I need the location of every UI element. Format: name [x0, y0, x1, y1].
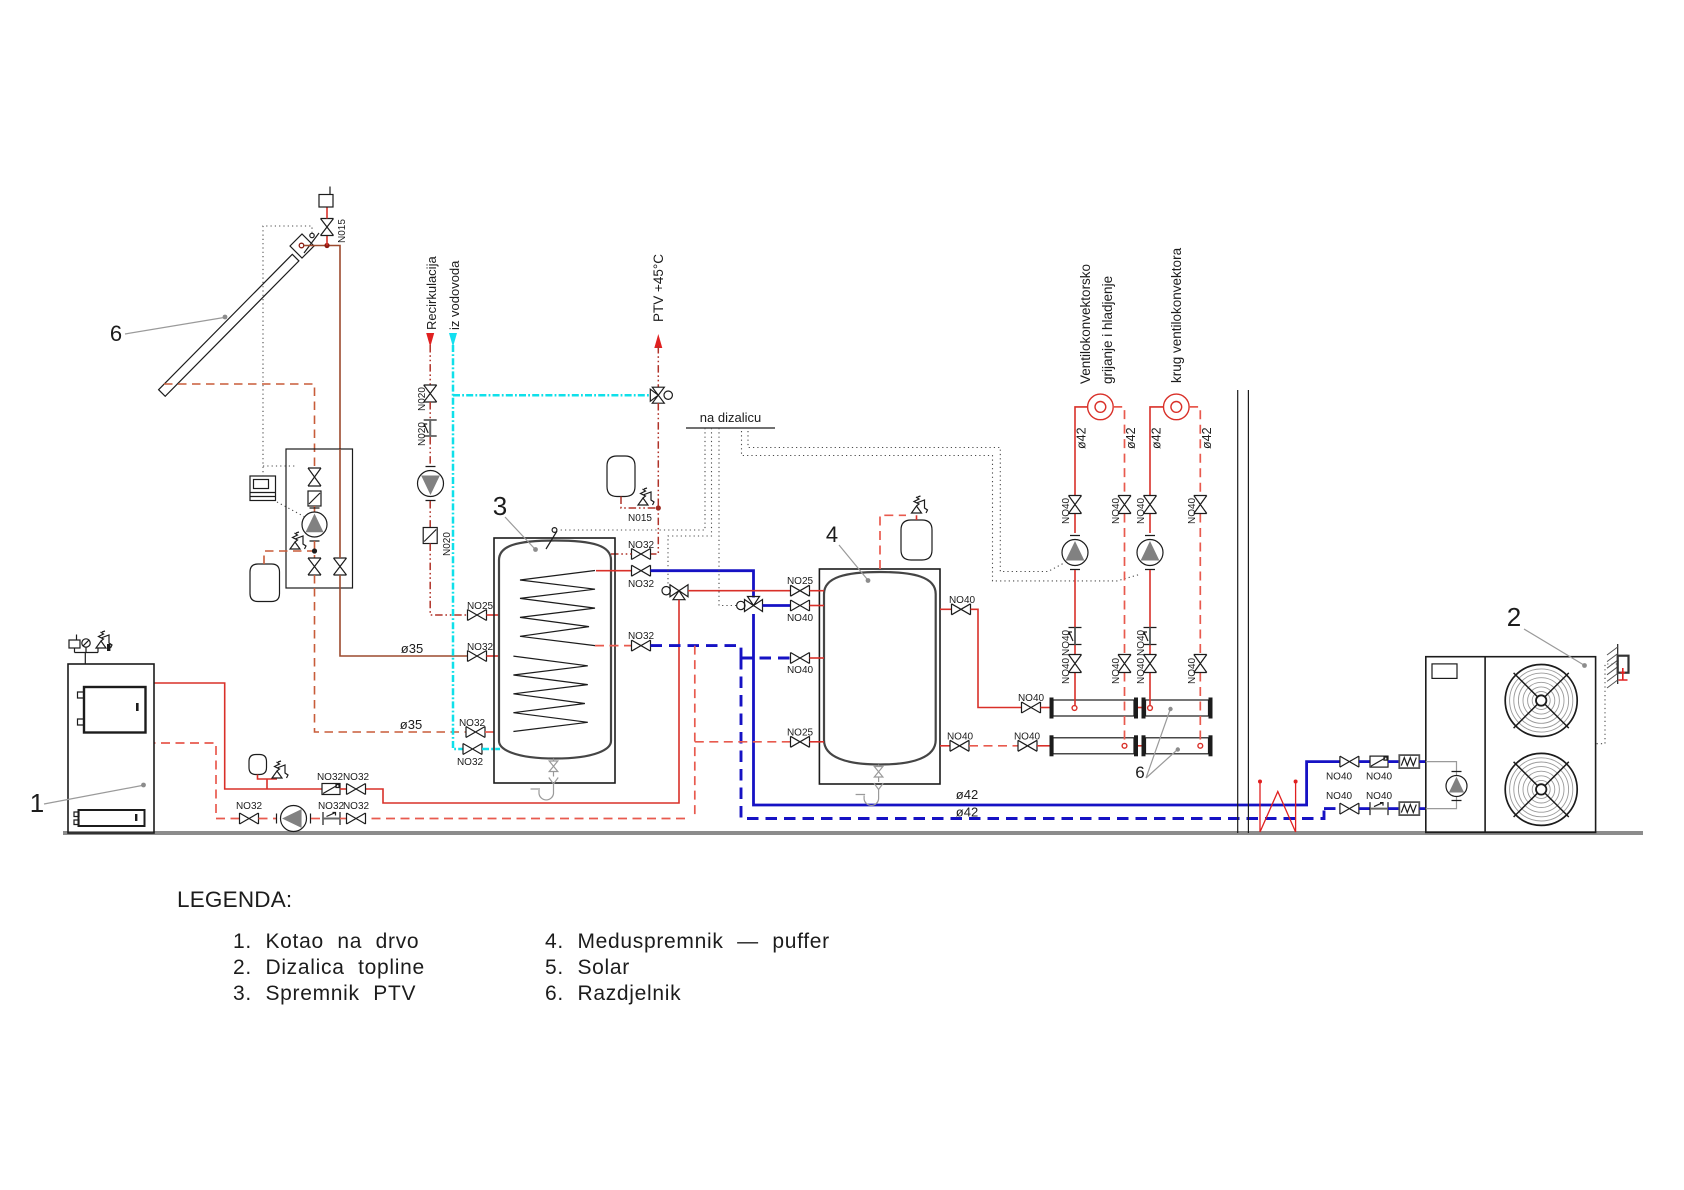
valve NO40 manifold return [1018, 740, 1037, 751]
wire dotted sensor to controller [263, 226, 312, 476]
leader 3 [505, 517, 534, 548]
outdoor sensor red mark [1619, 668, 1628, 680]
wire tank4 return dashed [969, 745, 1018, 747]
valve NO32 boiler return 2 [347, 813, 366, 824]
svg-text:2: 2 [1507, 602, 1521, 632]
wire station return exit [314, 575, 316, 588]
boiler expansion vessel [249, 755, 267, 775]
svg-text:NO25: NO25 [467, 601, 494, 612]
svg-text:NO32: NO32 [318, 801, 345, 812]
wire manifold return link [1138, 745, 1142, 747]
valve solar station top [308, 468, 321, 486]
svg-text:1: 1 [30, 788, 44, 818]
wire solar return dashed from panel [164, 384, 315, 470]
svg-text:NO40: NO40 [1018, 693, 1045, 704]
valve NO40 fancoil return 2 [1194, 496, 1207, 514]
check valve NO40 fancoil 2 [1144, 628, 1157, 645]
svg-text:NO40: NO40 [1326, 772, 1353, 783]
pump fancoil 2 [1137, 540, 1163, 566]
svg-text:6: 6 [1135, 763, 1144, 782]
tank 3 lower coil [513, 656, 587, 731]
wire dotted to fancoil pump 2 [742, 431, 1142, 581]
valve NO25 tank4 port4 [791, 736, 810, 747]
outdoor sensor bracket [1618, 656, 1629, 673]
svg-text:5. Solar: 5. Solar [545, 956, 630, 979]
svg-text:6: 6 [110, 321, 122, 346]
wire station internal 2 [314, 541, 316, 558]
wire dotted to tank3 sensor [560, 428, 705, 530]
svg-text:Ventilokonvektorsko: Ventilokonvektorsko [1078, 264, 1093, 384]
boiler body [68, 664, 154, 833]
valve NO40 fancoil 2 lower [1144, 655, 1157, 673]
svg-text:NO32: NO32 [628, 579, 655, 590]
safety valve boiler line [272, 771, 282, 778]
svg-text:NO32: NO32 [457, 757, 484, 768]
valve NO40 fancoil 1 lower [1069, 655, 1082, 673]
wire boiler supply [154, 683, 322, 789]
valve NO25 tank3 recirculation [468, 610, 487, 621]
svg-text:2. Dizalica topline: 2. Dizalica topline [233, 956, 425, 979]
heat pump divider [1484, 657, 1486, 833]
wire recirculation to tank3 [430, 544, 467, 616]
svg-text:4. Meduspremnik — puffer: 4. Meduspremnik — puffer [545, 930, 830, 953]
fancoil circuit symbol 2 [1164, 394, 1190, 420]
valve NO40 fancoil return 1 [1118, 496, 1131, 514]
valve NO40 tank4 port3 [791, 653, 810, 664]
wire dotted to three-way 2 [719, 428, 736, 606]
svg-text:grijanje i hladjenje: grijanje i hladjenje [1100, 276, 1115, 384]
wire three-way to tank4 port2 [763, 604, 791, 607]
wire tank3 top stub [611, 553, 632, 555]
wall bracket hatched [1617, 644, 1619, 684]
valve NO40 manifold feed [1022, 702, 1041, 713]
wire fancoil return 2 dashed [1189, 407, 1200, 743]
svg-text:N020: N020 [417, 387, 428, 411]
arrow recirculation [426, 333, 434, 347]
buffer expansion vessel [901, 520, 932, 560]
svg-text:NO32: NO32 [343, 801, 370, 812]
valve NO32 tank3 top port [632, 549, 651, 560]
wire dotted hp sensor [1596, 664, 1617, 744]
node manifold port r1 [1122, 743, 1127, 748]
pump fancoil 1 [1062, 540, 1088, 566]
node manifold port r2 [1198, 743, 1203, 748]
filter N020 recirculation [423, 528, 437, 544]
valve NO40 tank4 supply out [940, 608, 952, 610]
safety valve buffer [912, 506, 922, 513]
wire vessel to DHW riser [621, 497, 656, 509]
svg-text:ø35: ø35 [400, 717, 422, 732]
valve NO40 hp return [1340, 803, 1359, 814]
svg-text:NO32: NO32 [459, 718, 486, 729]
valve NO32 tank3 cold inlet [463, 744, 482, 755]
wire tank4 to manifold [971, 609, 1022, 707]
flow meter solar station [308, 491, 321, 506]
svg-text:NO25: NO25 [787, 728, 814, 739]
wire heating return dashed tank3 [651, 646, 791, 658]
svg-text:NO40: NO40 [947, 732, 974, 743]
pump recirculation [418, 471, 444, 497]
wire dotted to fancoil pump 1 [748, 431, 1065, 572]
check valve NO32 boiler return [323, 812, 340, 825]
heat pump fan 2 [1505, 753, 1577, 825]
valve NO40 fancoil supply 2 [1144, 496, 1157, 514]
svg-text:NO40: NO40 [1111, 657, 1122, 684]
wire fancoil supply 1b [1074, 570, 1076, 706]
check valve NO40 fancoil 1 [1069, 628, 1082, 645]
node manifold port 1 [1072, 706, 1077, 711]
manifold return left [1053, 738, 1134, 754]
wire blue hot supply from tank3 [651, 571, 754, 598]
wire station internal [314, 506, 316, 512]
svg-text:1. Kotao na drvo: 1. Kotao na drvo [233, 930, 419, 953]
manifold return right [1146, 738, 1209, 754]
wire boiler return branch tank4 [695, 741, 791, 743]
valve NO40 hp supply [1340, 756, 1359, 767]
solar temperature sensor [304, 233, 319, 253]
svg-text:NO40: NO40 [1061, 629, 1072, 656]
svg-text:NO32: NO32 [628, 631, 655, 642]
svg-text:NO40: NO40 [787, 665, 814, 676]
solar head port [299, 243, 304, 248]
valve NO40 tank4 port2 [791, 600, 810, 611]
arrow cold water [449, 333, 457, 347]
valve NO32 boiler return [154, 743, 240, 819]
leader 4 [839, 545, 867, 579]
air vent pot [319, 195, 333, 208]
wire dotted controller to pump [277, 502, 305, 517]
pump boiler circuit [281, 806, 307, 832]
heat pump control panel [1432, 664, 1457, 679]
leader line 6 [125, 318, 224, 335]
tank 4 outer [819, 569, 940, 784]
svg-text:6. Razdjelnik: 6. Razdjelnik [545, 982, 681, 1005]
arrow PTV outlet [654, 334, 662, 348]
check valve N020 recirculation [424, 420, 437, 436]
valve station supply [334, 558, 347, 575]
svg-text:Recirkulacija: Recirkulacija [424, 256, 439, 330]
valve NO32 tank3 solar return [466, 727, 485, 738]
expansion compensator [1260, 782, 1296, 833]
valve NO25 tank4 port1 [791, 585, 810, 596]
pump solar station [302, 512, 327, 537]
wire fancoil supply 2b [1149, 570, 1151, 706]
pump heat pump internal [1446, 776, 1467, 797]
wire station supply internal [339, 449, 341, 588]
actuator hp three-way [737, 601, 745, 609]
solar collector head [290, 234, 314, 258]
filter NO40 hp supply [1370, 756, 1388, 767]
DHW expansion vessel [607, 456, 635, 497]
wire vessel to station [264, 551, 312, 564]
wire boiler supply riser [366, 600, 680, 803]
svg-text:N015: N015 [628, 513, 652, 524]
manifold supply right [1146, 700, 1209, 716]
wire fancoil supply 1 [1075, 407, 1088, 533]
leaders 6 manifolds [1146, 710, 1177, 778]
boiler upper door [84, 687, 146, 733]
svg-text:NO40: NO40 [1326, 791, 1353, 802]
wire buffer vessel safety [916, 515, 918, 520]
wire DHW riser [651, 403, 659, 554]
tank 3 upper coil [520, 571, 595, 646]
node solar head junction [324, 243, 329, 248]
svg-text:ø42: ø42 [1200, 427, 1214, 449]
valve NO40 fancoil return 2 lower [1194, 655, 1207, 673]
fancoil circuit symbol 1 [1088, 394, 1114, 420]
valve station return [308, 558, 321, 575]
valve NO32 boiler supply [347, 784, 366, 795]
check valve NO40 hp return [1370, 802, 1388, 815]
node manifold port 2 [1148, 706, 1153, 711]
wire to air vent valve [326, 236, 328, 246]
svg-text:3: 3 [493, 491, 507, 521]
svg-text:NO40: NO40 [1187, 497, 1198, 524]
wire boiler return pump section [259, 818, 277, 820]
solar collector panel [159, 254, 299, 396]
safety valve N015 DHW [638, 498, 648, 505]
svg-text:NO40: NO40 [1061, 497, 1072, 524]
wire recirculation [429, 345, 431, 385]
wall lines [1238, 390, 1249, 833]
tank 3 drain [531, 759, 559, 800]
safety valve solar station [290, 542, 300, 549]
valve N015 solar air vent [321, 219, 334, 236]
svg-text:NO40: NO40 [1187, 657, 1198, 684]
node DHW junction [656, 505, 661, 510]
wire fancoil return 1 dashed [1113, 407, 1124, 743]
svg-text:ø35: ø35 [401, 641, 423, 656]
three-way valve hp circuit [745, 597, 763, 612]
wire vessel junction [258, 775, 278, 790]
tank 3 sensor [546, 531, 557, 549]
valve NO32 tank3 hot out [596, 570, 632, 572]
valve NO40 fancoil supply 1 [1069, 496, 1082, 514]
svg-text:NO32: NO32 [317, 772, 344, 783]
wire boiler return vertical [365, 646, 695, 819]
svg-text:iz vodovoda: iz vodovoda [447, 260, 462, 330]
valve NO32 tank3 heating return [595, 645, 632, 647]
wire solar supply oe35 [340, 588, 468, 656]
node station junction [312, 548, 317, 553]
three-way mixing valve DHW [650, 387, 664, 403]
svg-text:NO40: NO40 [1014, 732, 1041, 743]
tank 3 vessel [499, 541, 611, 759]
svg-text:NO32: NO32 [628, 540, 655, 551]
svg-text:ø42: ø42 [1124, 427, 1138, 449]
heat pump fan 1 [1505, 665, 1577, 737]
svg-text:ø42: ø42 [1150, 427, 1164, 449]
svg-text:NO40: NO40 [1136, 497, 1147, 524]
wire hp internal [1426, 762, 1457, 809]
filter NO32 boiler supply [322, 784, 340, 795]
svg-text:krug ventilokonvektora: krug ventilokonvektora [1169, 247, 1184, 383]
wire cold water branch to mixer [453, 394, 650, 397]
heat pump body [1426, 657, 1596, 833]
leader 1 [44, 786, 142, 805]
valve NO32 tank3 solar supply [468, 651, 487, 662]
svg-text:PTV +45°C: PTV +45°C [651, 254, 666, 322]
svg-text:NO40: NO40 [1136, 629, 1147, 656]
boiler top fittings [75, 647, 99, 664]
tank 4 drain [856, 765, 884, 806]
valve NO40 tank4 return in [940, 745, 950, 747]
wire heating return dashed main [741, 658, 1340, 819]
valve NO40 fancoil return 1 lower [1118, 655, 1131, 673]
svg-text:NO32: NO32 [467, 642, 494, 653]
actuator boiler three-way [662, 587, 670, 595]
svg-text:ø42: ø42 [956, 787, 978, 802]
svg-text:NO40: NO40 [949, 595, 976, 606]
wire cold water main [453, 345, 463, 749]
wire solar supply from head [304, 246, 340, 450]
ground line [63, 831, 1643, 835]
wire dotted to three-way 1 [668, 428, 712, 584]
solar pump station box [286, 449, 353, 588]
wire boiler three-way to tank4 [688, 590, 791, 592]
leader 2 [1524, 629, 1583, 665]
svg-text:NO40: NO40 [1366, 791, 1393, 802]
flex connector hp supply [1399, 755, 1419, 768]
three-way valve boiler circuit [670, 585, 688, 600]
svg-text:N015: N015 [337, 219, 348, 243]
svg-text:4: 4 [826, 522, 838, 547]
wire PTV riser upper [657, 346, 659, 387]
svg-text:na dizalicu: na dizalicu [700, 410, 761, 425]
svg-text:NO40: NO40 [1111, 497, 1122, 524]
boiler lower door [79, 810, 145, 826]
svg-text:LEGENDA:: LEGENDA: [177, 887, 292, 912]
svg-text:NO40: NO40 [1366, 772, 1393, 783]
wire solar return oe35 dashed [315, 588, 467, 732]
flex connector hp return [1399, 802, 1419, 815]
wire dotted controller to station [263, 465, 296, 467]
valve N020 recirculation [424, 385, 437, 402]
solar controller [250, 476, 276, 501]
wire manifold supply link [1138, 707, 1142, 709]
svg-text:3. Spremnik PTV: 3. Spremnik PTV [233, 982, 416, 1005]
svg-text:NO40: NO40 [787, 613, 814, 624]
wire fancoil supply 2 [1150, 407, 1164, 533]
svg-text:NO32: NO32 [343, 772, 370, 783]
tank 4 vessel [824, 572, 936, 765]
svg-text:NO25: NO25 [787, 576, 814, 587]
solar expansion vessel [250, 564, 280, 602]
wire hp supply down [754, 614, 1341, 805]
mixing valve actuator [664, 391, 672, 399]
tank 3 outer [494, 538, 615, 783]
svg-text:N020: N020 [442, 532, 453, 556]
svg-text:N020: N020 [417, 422, 428, 446]
manifold supply left [1053, 700, 1134, 716]
svg-text:ø42: ø42 [956, 805, 978, 820]
svg-text:NO32: NO32 [236, 801, 263, 812]
svg-text:ø42: ø42 [1075, 427, 1089, 449]
